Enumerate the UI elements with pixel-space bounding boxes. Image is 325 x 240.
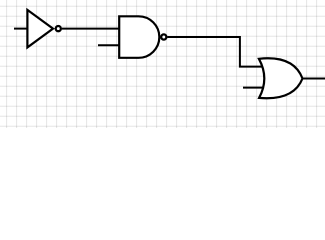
wire NOT input: [14, 28, 27, 30]
NOT gate U1 triangle: [27, 10, 53, 48]
NAND gate bubble: [161, 34, 166, 39]
NAND gate U2 body: [119, 16, 159, 58]
wire NAND input B: [98, 44, 119, 46]
wire OR input B: [243, 87, 264, 89]
wire NAND output to OR input A (two corners): [168, 37, 264, 67]
wire NOT output to NAND input A: [62, 28, 119, 30]
NOT gate bubble: [56, 26, 61, 31]
wire OR output: [303, 78, 325, 80]
OR gate U3 body: [259, 58, 303, 98]
